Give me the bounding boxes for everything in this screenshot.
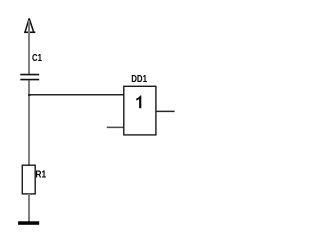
ground [18,221,39,225]
logic gate DD1 (inverter body) [124,86,156,135]
wire: power arrow down to C1 top plate [28,21,30,75]
wire: stub to DD1 input pin 2 [107,126,124,128]
wire: C1 bottom plate down to R1 top [28,80,30,165]
wire: R1 bottom to ground [28,194,30,222]
wire: junction to DD1 input pin 1 [28,94,124,96]
power symbol VCC (upward open arrow) [24,18,35,32]
svg-text:DD1: DD1 [131,74,147,85]
wire: DD1 output [156,110,175,112]
svg-text:C1: C1 [32,53,42,64]
resistor R1 [22,165,35,194]
capacitor C1 [20,75,39,80]
label 1 (gate function symbol) [136,96,141,109]
node: junction of vertical wire and DD1 input wire [28,94,31,96]
svg-text:R1: R1 [35,170,46,181]
